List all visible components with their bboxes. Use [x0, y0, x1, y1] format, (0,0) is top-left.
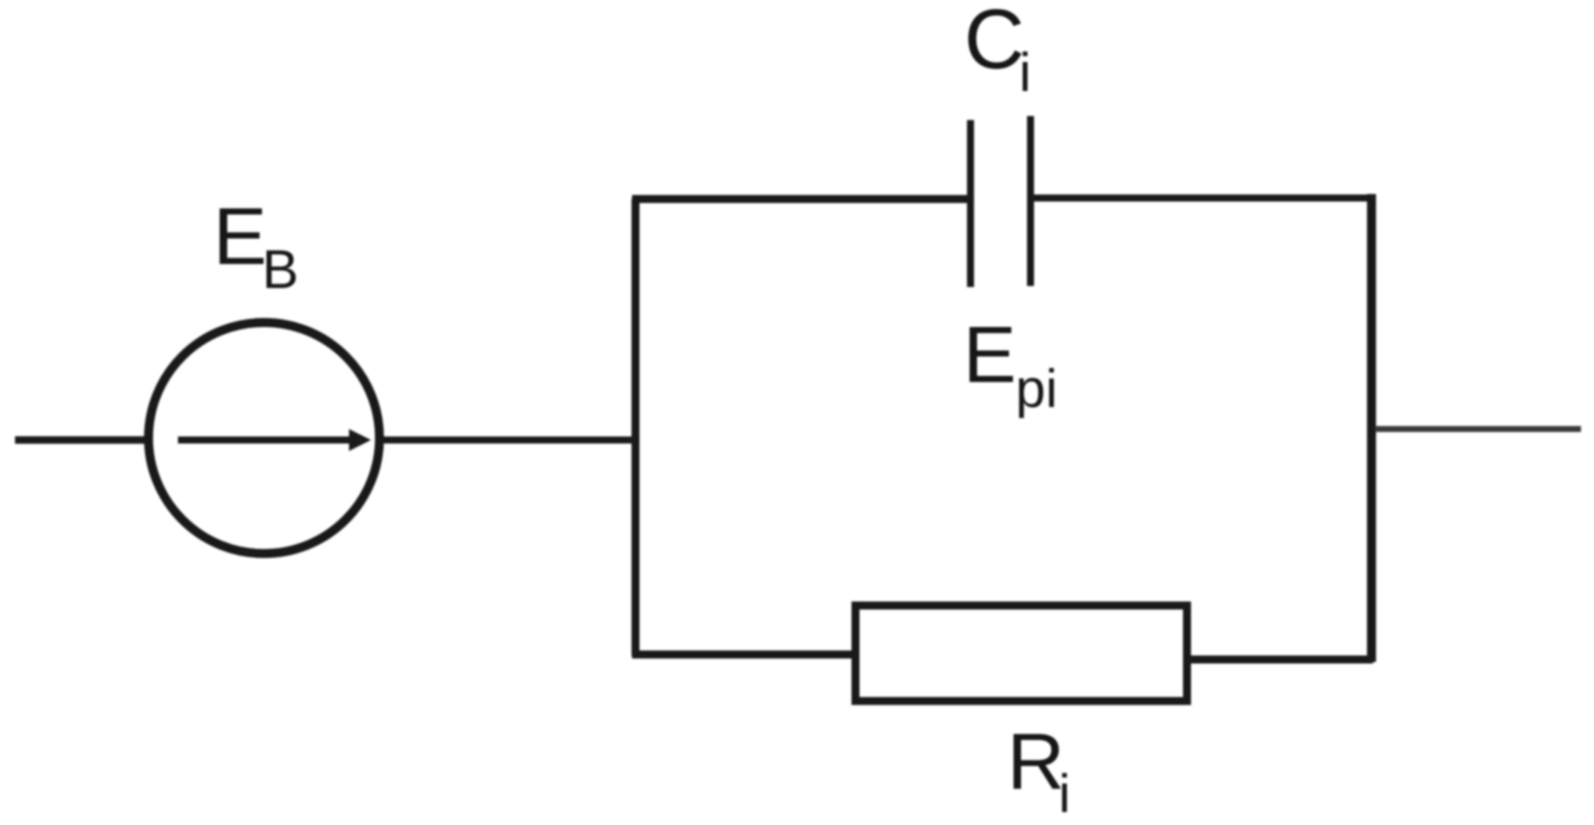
svg-text:E: E: [213, 192, 267, 282]
resistor Ri: [856, 606, 1188, 702]
label Epi: [963, 310, 1058, 419]
wire top left segment: [632, 195, 967, 203]
label Ci: [964, 0, 1031, 103]
svg-text:E: E: [963, 310, 1016, 399]
svg-text:R: R: [1007, 717, 1065, 806]
wire input left: [15, 436, 146, 444]
svg-text:B: B: [262, 238, 299, 300]
svg-text:i: i: [1019, 41, 1031, 103]
label Ri: [1007, 717, 1071, 824]
wire bottom right segment: [1187, 656, 1373, 664]
svg-text:C: C: [964, 0, 1025, 86]
wire bottom left segment: [632, 651, 855, 659]
voltage source E_B: [149, 323, 380, 554]
svg-text:pi: pi: [1016, 359, 1058, 419]
capacitor Ci: [971, 116, 1031, 287]
label EB: [213, 192, 299, 300]
source arrow: [178, 429, 371, 451]
wire output right: [1375, 426, 1581, 432]
svg-text:i: i: [1059, 764, 1071, 824]
wire source to node A: [383, 437, 639, 444]
wire left vertical branch: [632, 199, 640, 656]
wire right vertical branch: [1367, 194, 1376, 662]
wire top right segment: [1034, 195, 1375, 202]
